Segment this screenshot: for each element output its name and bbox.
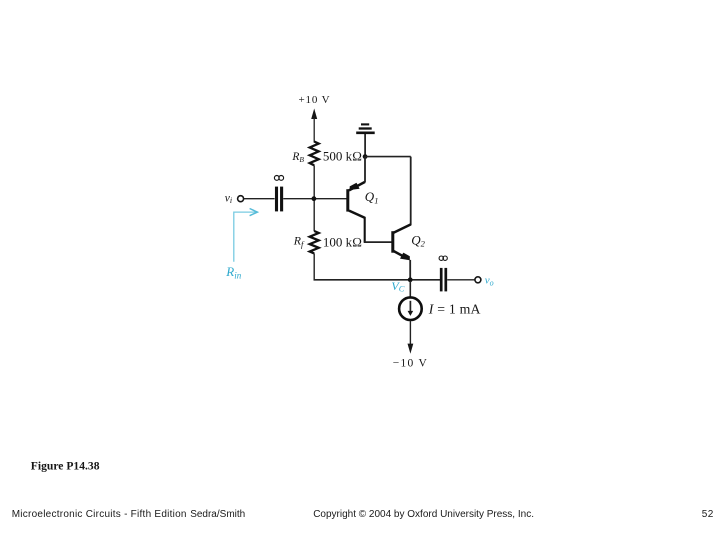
transistor Q1 emitter lead (PNP arrow into base)	[349, 182, 365, 191]
svg-text:vo: vo	[485, 275, 494, 288]
Rin measurement arrow (cyan)	[234, 209, 258, 262]
svg-text:vi: vi	[225, 192, 232, 205]
wire Q2 emitter down to output node	[409, 260, 411, 280]
junction dot output node VC	[408, 277, 413, 282]
wire RB to base node to Rf	[313, 165, 315, 231]
transistor Q2 emitter lead (NPN arrow out)	[394, 251, 410, 260]
wire output cap to vo terminal	[447, 279, 475, 281]
transistor Q1 base bar	[346, 189, 349, 211]
svg-text:Rin: Rin	[225, 264, 241, 280]
svg-text:Rf: Rf	[293, 234, 305, 249]
wire Q1 emitter up to ground node	[364, 157, 366, 183]
svg-text:−10 V: −10 V	[393, 357, 428, 369]
bottom rail wire to output node	[314, 279, 441, 281]
wire current source to -10V arrow	[409, 321, 411, 345]
junction dot ground node	[363, 154, 368, 159]
svg-text:RB: RB	[291, 151, 304, 164]
svg-text:Microelectronic Circuits - Fif: Microelectronic Circuits - Fifth Edition	[12, 509, 187, 520]
svg-text:Q2: Q2	[411, 232, 425, 248]
ground symbol	[356, 124, 375, 157]
wire ground node to right rail	[365, 156, 411, 158]
transistor Q2 collector lead	[394, 224, 411, 232]
svg-text:+10 V: +10 V	[299, 94, 331, 106]
wire vi terminal to capacitor	[244, 198, 275, 200]
svg-text:Figure P14.38: Figure P14.38	[31, 459, 100, 472]
transistor Q1 collector lead	[349, 211, 365, 243]
capacitor C2 output (infinite)	[441, 268, 446, 292]
junction dot base node	[312, 196, 317, 201]
wire capacitor to Q1 base	[283, 198, 346, 200]
svg-text:I = 1 mA: I = 1 mA	[428, 301, 481, 316]
svg-text:VC: VC	[391, 279, 404, 293]
label infinity input cap	[274, 176, 283, 181]
resistor RB	[310, 142, 319, 166]
svg-text:Copyright © 2004 by Oxford Uni: Copyright © 2004 by Oxford University Pr…	[313, 509, 534, 520]
wire Rf down to bottom rail	[313, 253, 315, 279]
+10V supply arrow	[311, 109, 317, 143]
svg-text:Sedra/Smith: Sedra/Smith	[190, 509, 245, 520]
wire right rail down to Q2 collector	[410, 157, 412, 226]
wire VC node down to current source	[409, 281, 411, 297]
current source I	[399, 297, 422, 320]
transistor Q2 base bar	[391, 231, 394, 253]
svg-text:Q1: Q1	[365, 189, 379, 205]
input terminal vi	[238, 196, 244, 202]
wire Q1 collector to Q2 base	[364, 241, 392, 243]
svg-text:52: 52	[702, 509, 714, 520]
capacitor C1 input (infinite)	[277, 187, 282, 212]
svg-text:500 kΩ: 500 kΩ	[323, 149, 362, 164]
-10V supply arrow	[408, 344, 414, 354]
output terminal vo	[475, 277, 481, 283]
resistor Rf	[310, 231, 319, 253]
label infinity output cap	[439, 256, 447, 260]
svg-text:100 kΩ: 100 kΩ	[323, 234, 362, 249]
